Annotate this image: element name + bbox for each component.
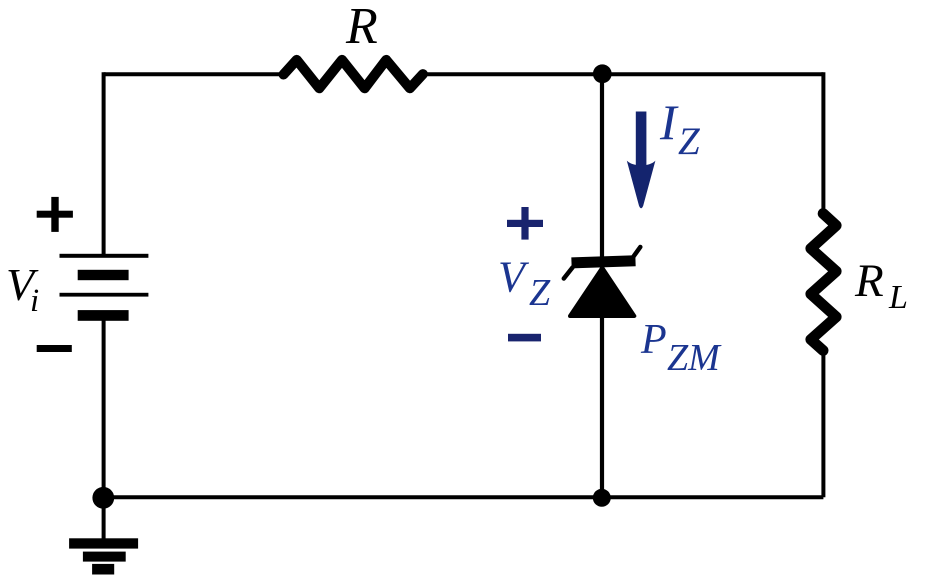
- svg-text:i: i: [30, 283, 39, 319]
- label IZ: [659, 94, 701, 163]
- resistor RL: [811, 214, 836, 351]
- wire middle vertical (zener branch): [600, 74, 604, 497]
- minus sign (VZ): [508, 334, 541, 342]
- wire bottom horizontal: [104, 495, 824, 499]
- battery Vi: [60, 254, 149, 321]
- wire left vertical (top, Vi plus terminal): [102, 72, 106, 255]
- svg-text:Z: Z: [529, 272, 551, 314]
- ground: [69, 538, 138, 574]
- resistor R: [284, 60, 423, 88]
- wire top horizontal: [104, 72, 284, 76]
- wire right vertical (top): [821, 72, 825, 214]
- label R: [345, 0, 378, 55]
- svg-text:I: I: [659, 94, 679, 150]
- minus sign (battery): [37, 345, 72, 352]
- plus sign (battery): [37, 197, 73, 232]
- label PZM: [640, 317, 722, 379]
- plus sign (VZ): [507, 207, 543, 240]
- svg-text:Z: Z: [678, 120, 701, 163]
- wire left vertical (bottom, Vi minus terminal to ground): [102, 315, 106, 539]
- node C (bottom middle junction): [593, 489, 611, 507]
- svg-text:ZM: ZM: [667, 337, 722, 379]
- current arrow IZ: [627, 112, 656, 209]
- wire right vertical (bottom): [821, 350, 825, 497]
- node A (top junction): [593, 64, 612, 83]
- svg-text:L: L: [888, 279, 908, 316]
- wire top horizontal right of R: [421, 72, 823, 76]
- svg-text:R: R: [345, 0, 378, 55]
- label VZ: [498, 253, 551, 314]
- svg-text:P: P: [640, 317, 667, 363]
- node B (bottom left junction): [92, 487, 114, 509]
- svg-text:R: R: [854, 255, 884, 307]
- label Vi: [6, 259, 39, 319]
- zener diode DZ: [564, 247, 641, 316]
- label RL: [854, 255, 908, 316]
